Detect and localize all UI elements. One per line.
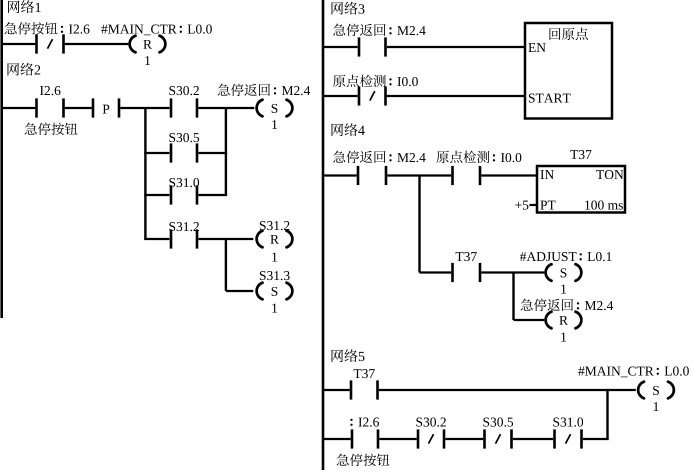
NO contact T37 (350, 380, 379, 399)
reset coil S31.2 (R) (257, 231, 293, 248)
reset coil #MAIN_CTR L0.0 (R) (130, 36, 166, 53)
wire rail to contact I2.6 (2, 107, 36, 109)
label S30.2 (169, 86, 198, 95)
wire S30.5 to collector (198, 152, 227, 154)
wire contact T37 to coil (379, 389, 636, 391)
wire +5 to PT (530, 204, 538, 206)
NC contact I2.6 (35, 34, 65, 53)
wire contact to coil (65, 43, 129, 45)
set coil S31.3 (S) (257, 283, 293, 300)
wire to coil R (514, 319, 545, 321)
branch vertical down (418, 176, 420, 273)
wire rail to contact I0.0 (323, 95, 358, 97)
wire contact to EN input (387, 46, 525, 48)
branch vertical to coil R (512, 273, 514, 321)
coil operand 1 (145, 56, 150, 65)
label S31.2 above coil (260, 221, 289, 230)
wire contact M2.4 to contact I0.0 (387, 174, 451, 176)
NC contact S30.5 (483, 429, 513, 448)
label S30.2 (416, 418, 445, 427)
NO contact S30.2 (170, 98, 199, 117)
NC contact S30.2 (417, 429, 446, 448)
right power rail (322, 0, 325, 470)
network 3 title (332, 2, 365, 15)
label 100 ms (585, 201, 623, 210)
timer label T37 (570, 150, 591, 159)
label S31.3 (260, 271, 290, 280)
set coil 急停返回 M2.4 (S) (257, 100, 293, 117)
coil operand 1 (272, 120, 277, 129)
label 急停按钮 (25, 123, 78, 136)
wire rail to contact M2.4 (323, 174, 357, 176)
label 急停返回:M2.4 (218, 84, 311, 97)
timer box T37 TON (537, 166, 625, 213)
wire branch to S30.5 (144, 152, 169, 154)
network 4 title (332, 123, 365, 136)
coil operand 1 (561, 285, 566, 294)
network 1 title (8, 0, 41, 13)
subroutine box 回原点 (525, 23, 612, 119)
label 急停按钮 (337, 454, 390, 467)
NO contact I2.6 (35, 98, 65, 117)
wire branch to S31.2 (144, 238, 169, 240)
NO contact S31.0 (170, 185, 199, 204)
NO contact M2.4 (358, 37, 387, 56)
label 原点检测:I0.0 (333, 75, 418, 87)
wire branch to S31.0 (144, 194, 169, 196)
wire contact T37 to coil S (481, 271, 544, 273)
label S31.0 (553, 418, 583, 427)
box title 回原点 (549, 28, 587, 40)
NC contact I0.0 (358, 86, 387, 105)
wire S31.0 to collector (198, 194, 227, 196)
wire S31.2 to coil R (198, 238, 253, 240)
wire contact to timer IN (481, 174, 537, 176)
NO contact S31.2 (170, 229, 199, 248)
wire rail to contact T37 (323, 389, 350, 391)
label T37 (354, 369, 375, 378)
PT preset +5 (515, 201, 528, 210)
NO contact I2.6 (351, 429, 380, 448)
label 急停按钮:I2.6 (5, 22, 90, 35)
wire to contact S31.0 (513, 438, 553, 440)
NO contact S30.5 (170, 143, 199, 162)
wire rail to contact I2.6 (2, 43, 36, 45)
reset coil 急停返回 M2.4 (R) (546, 312, 582, 329)
wire rail to contact I2.6 (323, 438, 351, 440)
NC contact S31.0 (553, 429, 583, 448)
wire to P contact (65, 107, 92, 109)
NO contact T37 (451, 263, 481, 282)
pin EN (528, 43, 545, 52)
branch vertical to S31.3 coil (225, 239, 227, 291)
network 2 title (8, 63, 41, 76)
label #ADJUST:L0.1 (520, 252, 612, 261)
label 急停返回:M2.4 (333, 151, 426, 164)
set coil #ADJUST L0.1 (S) (546, 264, 582, 281)
label S31.0 (169, 178, 199, 187)
branch vertical right collector (225, 108, 227, 195)
wire contact S31.0 to collector (583, 438, 609, 440)
coil operand 1 (654, 402, 659, 411)
label #MAIN_CTR:L0.0 (578, 367, 689, 378)
pin PT (540, 201, 555, 210)
wire to contact S30.2 (379, 438, 416, 440)
left power rail (0, 0, 3, 318)
wire rail to contact M2.4 (323, 46, 358, 48)
branch vertical left (144, 108, 146, 239)
coil operand 1 (561, 333, 566, 342)
wire to coil M2.4 (198, 107, 254, 109)
pin START (529, 94, 571, 103)
label S30.5 (169, 133, 199, 142)
wire to contact S30.5 (445, 438, 483, 440)
coil operand 1 (272, 253, 277, 262)
label :I2.6 (350, 418, 379, 427)
NO contact M2.4 (357, 166, 388, 185)
label T37 (456, 252, 477, 261)
set coil #MAIN_CTR L0.0 (S) (638, 382, 674, 399)
label 急停返回:M2.4 (333, 24, 426, 37)
pin IN (540, 170, 553, 179)
NO contact I0.0 (451, 166, 481, 185)
label 原点检测:I0.0 (436, 151, 521, 163)
network 5 title (332, 349, 365, 362)
wire P to contact S30.2 (120, 107, 169, 109)
wire branch to contact T37 (420, 271, 452, 273)
wire contact to START input (387, 95, 525, 97)
label #MAIN_CTR:L0.0 (101, 25, 212, 36)
label 急停返回:M2.4 (521, 299, 614, 312)
label S30.5 (483, 418, 513, 427)
collector vertical (606, 390, 608, 439)
label I2.6 (40, 86, 60, 95)
positive edge contact P (92, 98, 121, 117)
wire to coil S31.3 (226, 290, 253, 292)
label TON (596, 170, 623, 179)
label S31.2 (169, 222, 198, 231)
coil operand 1 (272, 304, 277, 313)
